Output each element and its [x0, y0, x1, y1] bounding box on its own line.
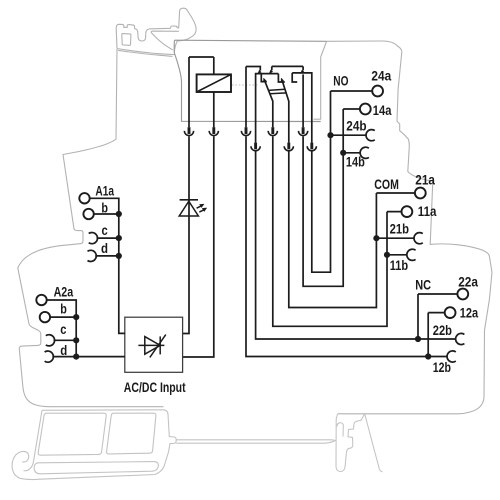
svg-text:AC/DC Input: AC/DC Input [124, 380, 186, 395]
relay block outline [174, 40, 326, 121]
plug contact coil wire A [188, 127, 191, 134]
node 14b terminal [343, 152, 361, 154]
contact NC1 top hook with arrow [246, 67, 260, 71]
svg-text:22a: 22a [458, 274, 478, 289]
rectifier box [125, 317, 183, 372]
svg-text:12b: 12b [433, 360, 451, 375]
node 11b terminal [387, 254, 407, 256]
foot bottom slot [34, 462, 158, 474]
node 21a terminal [376, 193, 415, 238]
wire NC2 lower run to 22b [256, 152, 457, 340]
node 22b terminal [456, 333, 465, 344]
wire coil-LED branch upper [188, 57, 190, 127]
plug contact COM2 [287, 143, 290, 150]
svg-text:NO: NO [333, 73, 348, 88]
node 12b terminal [447, 351, 456, 362]
foot window 2 [107, 413, 156, 454]
wire COM2 lower run to 21 column [289, 152, 377, 308]
svg-text:21b: 21b [390, 222, 409, 237]
svg-text:A1a: A1a [95, 183, 114, 198]
node A1a terminal [90, 198, 125, 333]
wire NC1 lower run to 12b [246, 136, 448, 356]
svg-text:b: b [101, 200, 108, 215]
housing jog at relay-block top right [314, 41, 327, 119]
wire LED branch lower [183, 136, 189, 333]
svg-text:24a: 24a [371, 69, 391, 84]
housing latch lever [116, 8, 196, 52]
svg-text:22b: 22b [433, 323, 452, 338]
node 21b terminal [376, 237, 414, 239]
node 24a terminal [331, 91, 373, 135]
svg-text:11b: 11b [390, 258, 408, 273]
mechanical link bars between blades [268, 89, 287, 94]
moving contact blade 2 (COM2) [282, 80, 289, 143]
svg-text:14b: 14b [346, 155, 365, 170]
housing collar under latch [117, 49, 175, 55]
LED indicator [180, 199, 198, 201]
contact finger stub on rail 1 [261, 74, 267, 82]
housing right profile with terminal steps [327, 41, 492, 414]
plug contact NC2 [254, 143, 257, 150]
DIN rail foot [12, 410, 176, 480]
svg-text:24b: 24b [346, 119, 366, 134]
svg-text:12a: 12a [460, 306, 479, 321]
wire NO1 vertical [302, 74, 304, 127]
contact rail 2 (NO2 fixed contacts) [292, 73, 312, 143]
plug contact NO2 [310, 143, 313, 150]
contact NO1 top bridge with arrows [272, 66, 303, 70]
wire COM1 lower run to 11 column [273, 136, 387, 326]
contact rail 1 (NC2 fixed contacts) [256, 74, 279, 143]
mechanical link dashed [232, 84, 258, 86]
moving contact blade 1 (COM1) [264, 80, 273, 127]
DIN rail edge lines [176, 440, 335, 443]
wire NC1 vertical [245, 67, 247, 128]
svg-text:A2a: A2a [54, 284, 74, 299]
wire coil branch lower [183, 92, 214, 357]
svg-text:11a: 11a [418, 204, 437, 219]
wire NO2 lower run to 24 column [312, 135, 331, 272]
svg-text:21a: 21a [415, 173, 435, 188]
svg-text:d: d [101, 241, 108, 256]
svg-text:NC: NC [415, 278, 431, 293]
rectifier diode [138, 344, 164, 346]
latch window hole [122, 34, 131, 46]
node A1b terminal [94, 213, 119, 215]
plug contact COM1 [271, 127, 274, 134]
svg-text:c: c [102, 223, 109, 238]
svg-text:14a: 14a [373, 103, 392, 118]
DIN rail clip [336, 414, 383, 472]
foot window 1 [38, 413, 106, 455]
wire coil branch upper [213, 57, 215, 74]
node 22a terminal [418, 294, 457, 339]
svg-text:d: d [60, 343, 67, 358]
node A1c terminal [97, 237, 119, 239]
plug contact coil wire B [212, 127, 215, 134]
node 14a terminal [343, 109, 360, 153]
node A2b terminal [50, 316, 76, 318]
node 24b terminal [331, 134, 367, 136]
plug contact NO1 [302, 127, 305, 134]
housing left profile with terminal steps [18, 49, 164, 407]
wire coil bridge top [189, 56, 214, 58]
wire NO1 lower run to 14 column [303, 136, 343, 286]
node A2a terminal [47, 300, 76, 357]
node A2c terminal [54, 339, 77, 341]
node 12a terminal [428, 313, 445, 357]
node A1d terminal [95, 255, 119, 257]
node 11a terminal [387, 212, 402, 255]
plug contact NC1 [245, 127, 248, 134]
relay coil K1 [197, 74, 231, 92]
svg-text:b: b [60, 302, 67, 317]
node A2d terminal / AC input wire [52, 356, 125, 358]
svg-text:c: c [60, 322, 67, 337]
svg-text:COM: COM [374, 177, 399, 192]
